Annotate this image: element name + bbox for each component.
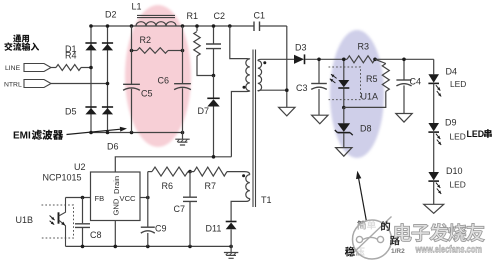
LED D10 bbox=[428, 166, 465, 204]
svg-text:R3: R3 bbox=[358, 42, 370, 52]
diode D11 bbox=[206, 222, 237, 247]
svg-text:R1: R1 bbox=[187, 11, 199, 21]
wire drain bbox=[115, 157, 231, 172]
ground LED string bbox=[424, 204, 444, 213]
svg-text:www.elecfans.com: www.elecfans.com bbox=[415, 245, 482, 256]
svg-text:D9: D9 bbox=[445, 118, 457, 128]
junction node drain-D7 bbox=[212, 155, 216, 159]
optocoupler U1B phototransistor bbox=[16, 198, 74, 247]
resistor R1 bbox=[187, 11, 214, 76]
svg-text:D2: D2 bbox=[105, 10, 117, 20]
inductor L1 bbox=[132, 2, 177, 27]
diode D6 bbox=[102, 107, 119, 152]
label regulator annotation (简单的...) bbox=[356, 220, 376, 256]
label EMI filter with arrow bbox=[13, 127, 127, 142]
svg-text:LED: LED bbox=[450, 180, 466, 190]
svg-text:D3: D3 bbox=[295, 43, 307, 53]
ground secondary bbox=[279, 107, 295, 116]
capacitor C7 bbox=[174, 172, 198, 247]
junction node R3-R5 bbox=[373, 58, 377, 62]
transformer T1 secondary winding bbox=[258, 59, 294, 91]
svg-text:C2: C2 bbox=[214, 11, 226, 21]
svg-text:L1: L1 bbox=[132, 2, 142, 12]
capacitor C1 bbox=[254, 11, 266, 32]
junction node NTRL-bridge bbox=[106, 82, 110, 86]
resistor R4 bbox=[51, 51, 91, 71]
capacitor C8 bbox=[75, 198, 102, 247]
svg-text:R7: R7 bbox=[205, 181, 217, 191]
watermark url bbox=[415, 245, 482, 256]
resistor R5 bbox=[344, 59, 390, 107]
regulator highlight ellipse bbox=[330, 30, 384, 158]
wire FB bbox=[66, 197, 91, 199]
svg-text:C4: C4 bbox=[410, 77, 422, 87]
svg-text:T1: T1 bbox=[261, 195, 272, 205]
svg-text:LINE: LINE bbox=[5, 65, 21, 72]
svg-text:D8: D8 bbox=[360, 124, 372, 134]
junction node U1A top bbox=[342, 58, 346, 62]
watermark logo circle bbox=[350, 217, 392, 260]
svg-text:C3: C3 bbox=[296, 83, 308, 93]
svg-text:NCP1015: NCP1015 bbox=[43, 173, 82, 183]
svg-text:EMI: EMI bbox=[13, 131, 31, 142]
diode D2 bbox=[102, 10, 117, 51]
svg-text:LED: LED bbox=[450, 79, 466, 89]
label T1 bbox=[261, 195, 272, 205]
svg-text:D10: D10 bbox=[446, 166, 463, 176]
ground EMI filter (chassis) bbox=[175, 133, 189, 146]
resistor R2 bbox=[132, 35, 183, 53]
junction node FB-C8 bbox=[81, 196, 85, 200]
resistor R6 bbox=[148, 167, 190, 191]
wire GND pin bbox=[114, 221, 116, 247]
arrow to regulator bbox=[356, 171, 366, 221]
svg-text:R5: R5 bbox=[366, 74, 378, 84]
capacitor C5 bbox=[123, 26, 152, 133]
svg-text:C5: C5 bbox=[141, 89, 153, 99]
resistor R3 bbox=[347, 42, 375, 63]
label LED string (LED串) bbox=[467, 129, 492, 139]
capacitor C3 bbox=[296, 59, 327, 115]
svg-text:D7: D7 bbox=[198, 106, 210, 116]
junction nodes R2 bbox=[130, 49, 185, 53]
watermark 电子发烧友 bbox=[395, 223, 485, 241]
svg-text:C1: C1 bbox=[254, 11, 266, 21]
diode D7 bbox=[198, 76, 220, 157]
ground C3 bbox=[312, 115, 328, 124]
ground D8 bbox=[336, 148, 352, 157]
wire rail to primary top bbox=[230, 26, 250, 59]
junction node C4 bbox=[402, 58, 406, 62]
junction node rail-primary bbox=[228, 24, 232, 28]
svg-text:C9: C9 bbox=[155, 224, 167, 234]
svg-text:1/R2: 1/R2 bbox=[391, 248, 405, 255]
svg-text:R6: R6 bbox=[162, 181, 174, 191]
zener diode D8 bbox=[335, 108, 372, 148]
diode D3 bbox=[294, 43, 347, 65]
watermark fragment bbox=[391, 248, 405, 255]
svg-text:C6: C6 bbox=[158, 76, 170, 86]
transformer T1 primary winding bbox=[231, 59, 249, 157]
ground C4 bbox=[396, 114, 412, 123]
diode D1 bbox=[65, 43, 97, 54]
junction node R6-R7-C7 bbox=[188, 170, 192, 174]
wire VCC riser bbox=[147, 172, 149, 227]
EMI filter highlight ellipse bbox=[125, 5, 191, 147]
svg-text:GND: GND bbox=[112, 198, 121, 215]
junction nodes bottom rail bbox=[81, 245, 233, 249]
svg-text:D6: D6 bbox=[107, 142, 119, 152]
wire primary bottom rail bbox=[66, 245, 232, 247]
junction node VCC bbox=[146, 196, 150, 200]
junction node U1A bottom bbox=[342, 106, 346, 110]
wire right bridge column bbox=[107, 26, 109, 133]
LED D9 bbox=[428, 118, 465, 173]
optocoupler U1A LED bbox=[329, 59, 379, 107]
junction node C3 bbox=[317, 58, 321, 62]
wire rectifier bottom rail bbox=[91, 132, 183, 134]
wire LED string drop bbox=[433, 59, 435, 74]
capacitor C9 bbox=[141, 224, 167, 247]
capacitor C6 bbox=[158, 26, 191, 133]
label AC input (通用交流输入) bbox=[4, 35, 39, 51]
svg-text:VCC: VCC bbox=[120, 194, 137, 203]
svg-text:NTRL: NTRL bbox=[4, 82, 22, 89]
svg-text:U1B: U1B bbox=[16, 215, 34, 225]
wire left bridge column bbox=[90, 26, 92, 133]
wire output rail bbox=[375, 58, 434, 60]
wire VCC pin bbox=[140, 197, 148, 199]
junction nodes snubber bbox=[195, 24, 215, 77]
svg-text:D1: D1 bbox=[65, 44, 77, 54]
svg-text:U2: U2 bbox=[74, 162, 86, 172]
svg-text:Drain: Drain bbox=[112, 176, 121, 194]
junction node LINE-bridge bbox=[89, 66, 93, 70]
label regulator annotation (的 路 稳) bbox=[345, 221, 400, 256]
svg-text:C7: C7 bbox=[174, 204, 186, 214]
svg-text:LED: LED bbox=[467, 129, 485, 139]
svg-text:C8: C8 bbox=[90, 230, 102, 240]
svg-text:R2: R2 bbox=[140, 35, 152, 45]
wire top rail bbox=[91, 25, 287, 27]
IC U2 NCP1015 bbox=[43, 162, 141, 221]
svg-text:D4: D4 bbox=[446, 67, 458, 77]
wire C1 to secondary return bbox=[286, 26, 288, 107]
transformer T1 auxiliary winding bbox=[231, 172, 250, 222]
capacitor C4 bbox=[396, 59, 421, 113]
transformer T1 core bbox=[253, 50, 256, 208]
junction nodes top rail bbox=[89, 24, 109, 28]
svg-text:D5: D5 bbox=[65, 107, 77, 117]
LINE connector bbox=[5, 64, 51, 73]
junction node secondary return bbox=[285, 88, 289, 92]
svg-text:LED: LED bbox=[450, 132, 466, 142]
diode D5 bbox=[65, 107, 97, 117]
junction nodes bottom rail bbox=[89, 131, 184, 135]
svg-text:FB: FB bbox=[95, 194, 105, 203]
svg-text:U1A: U1A bbox=[361, 92, 379, 102]
ground primary (chassis) bbox=[224, 246, 238, 258]
NTRL connector bbox=[4, 80, 51, 89]
svg-text:D11: D11 bbox=[206, 224, 222, 234]
capacitor C2 bbox=[206, 11, 225, 76]
LED D4 bbox=[428, 67, 466, 124]
junction nodes L1 bbox=[130, 24, 185, 28]
resistor R7 bbox=[190, 167, 245, 191]
wire NTRL to bridge bbox=[51, 83, 108, 85]
